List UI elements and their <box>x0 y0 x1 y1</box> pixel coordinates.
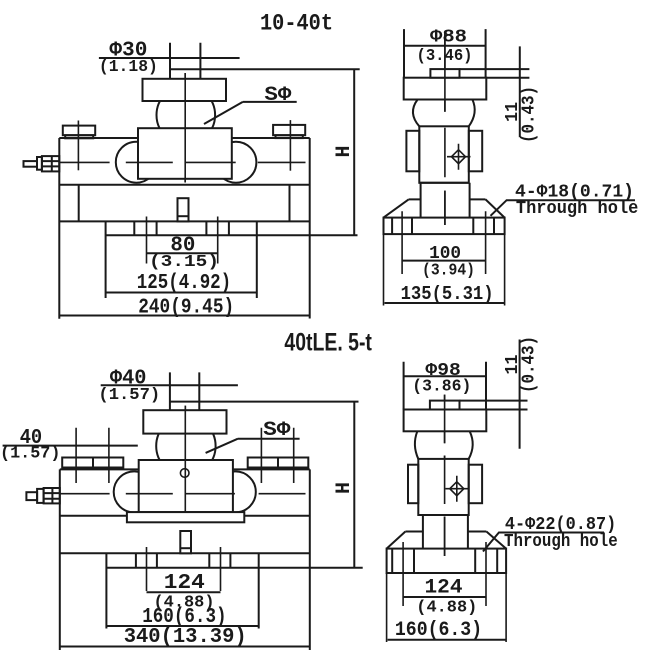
dim line Phi98 <box>404 375 486 377</box>
135 extensions <box>384 234 505 305</box>
side tab right <box>469 465 482 504</box>
H top reference line + collar line <box>170 401 359 403</box>
label Phi40 <box>98 367 160 405</box>
hole center extensions (124 dim) <box>147 547 221 591</box>
dim line 11 <box>519 46 521 137</box>
bolt left <box>63 121 95 171</box>
pin <box>178 198 189 221</box>
housing top edge <box>59 137 309 139</box>
pin <box>180 531 191 553</box>
housing bottom edge <box>60 515 310 517</box>
svg-text:H: H <box>333 482 356 494</box>
center line vertical <box>184 73 186 183</box>
lower neck <box>421 183 470 218</box>
11 dim reference lines <box>460 401 528 410</box>
base plate bottom + H bottom reference <box>106 234 358 236</box>
svg-text:124: 124 <box>425 576 463 599</box>
ball side view <box>413 100 475 127</box>
housing right edge + 340 extension <box>309 469 311 650</box>
svg-text:Through hole: Through hole <box>504 532 618 552</box>
svg-text:135(5.31): 135(5.31) <box>401 283 494 305</box>
diamond hole marker <box>447 144 471 170</box>
svg-text:Φ88: Φ88 <box>430 28 467 48</box>
svg-text:125(4.92): 125(4.92) <box>137 272 232 295</box>
svg-text:10-40t: 10-40t <box>260 11 333 37</box>
horizontal centerline <box>60 493 306 495</box>
svg-text:(3.94): (3.94) <box>422 262 475 281</box>
base plate hole edges <box>134 221 229 235</box>
top plate side <box>404 410 487 432</box>
label Phi98 <box>412 361 471 397</box>
dim line 11 bottom <box>519 340 521 449</box>
11 dim reference lines <box>460 69 530 78</box>
label Phi30 <box>99 40 158 77</box>
ball <box>156 416 215 475</box>
160 extensions <box>387 573 507 642</box>
center line <box>444 33 446 225</box>
trapezoid base top <box>409 198 486 200</box>
svg-text:(4.88): (4.88) <box>416 599 477 618</box>
svg-text:340(13.39): 340(13.39) <box>124 626 247 649</box>
dim 240 <box>59 315 309 317</box>
support beam inner verticals <box>79 185 290 222</box>
svg-text:124: 124 <box>164 572 205 595</box>
housing left edge + 240 extension <box>58 138 60 319</box>
saddle block <box>139 460 233 512</box>
trapezoid base top <box>405 531 486 533</box>
bolt strip right <box>248 428 309 483</box>
leader 4-Phi18 <box>491 200 636 216</box>
base band <box>387 549 507 573</box>
base plate sides + 160 extensions <box>106 553 258 628</box>
base plate sides + 125 extensions <box>106 221 257 298</box>
label 11 (0.43) rotated bottom <box>503 336 540 393</box>
small hole in block <box>180 469 189 478</box>
dim 135 <box>385 302 505 304</box>
support beam bottom <box>60 552 310 554</box>
strip under block <box>127 512 244 522</box>
svg-text:40tLE. 5-t: 40tLE. 5-t <box>284 329 372 357</box>
dim 160 <box>388 639 507 641</box>
label Phi88 <box>417 28 473 66</box>
dim 100 <box>402 260 486 262</box>
roller right <box>215 471 256 512</box>
base plate hole edges <box>136 553 231 568</box>
svg-text:(1.57): (1.57) <box>98 386 160 405</box>
saddle block <box>138 128 232 179</box>
dim 125 <box>106 292 257 294</box>
base band <box>384 218 505 235</box>
stem verticals (rocker pin top) <box>170 43 200 79</box>
ball side view <box>415 431 473 459</box>
base band hole edges <box>392 549 497 573</box>
svg-text:Through hole: Through hole <box>516 199 639 219</box>
center line redrawn <box>444 395 446 556</box>
svg-text:(3.86): (3.86) <box>412 378 471 397</box>
side tab right <box>469 131 482 172</box>
side tab left <box>408 465 418 504</box>
trapezoid slants <box>387 532 507 549</box>
hole center extensions (80 dim) <box>147 217 218 264</box>
svg-text:(3.15): (3.15) <box>149 253 219 272</box>
svg-text:H: H <box>333 145 356 157</box>
dim 80 <box>147 252 218 254</box>
anti-rotation tab <box>430 69 459 78</box>
support beam bottom <box>59 220 309 222</box>
dim 124 <box>403 596 486 598</box>
housing bottom edge <box>59 184 309 186</box>
body cylinder <box>419 126 469 183</box>
top plate <box>143 79 227 101</box>
leader 4-Phi22 <box>483 533 604 552</box>
cable connector <box>26 488 59 503</box>
cable connector <box>24 156 60 171</box>
center line vertical <box>184 406 186 512</box>
side tab left <box>406 131 419 172</box>
label 4-Phi18 through hole <box>515 183 638 219</box>
center line through plate/ball redrawn <box>184 73 186 183</box>
dim 340 <box>60 646 310 648</box>
dim 160 <box>106 625 258 627</box>
center line redrawn over body <box>444 33 446 225</box>
body bottom edge <box>418 514 468 516</box>
horizontal centerline <box>60 161 306 163</box>
roller right <box>215 142 256 183</box>
center line redrawn <box>184 406 186 512</box>
bolt strip left <box>62 428 123 483</box>
center line <box>444 395 446 556</box>
top plate side <box>404 78 487 100</box>
svg-text:240(9.45): 240(9.45) <box>138 297 234 320</box>
housing right edge + 240 extension <box>309 138 311 319</box>
label 11 (0.43) rotated <box>503 86 540 143</box>
stem verticals <box>170 372 199 410</box>
diamond hole marker <box>445 476 469 502</box>
top plate <box>143 410 226 433</box>
Phi88 extension lines <box>404 29 486 78</box>
dim line Phi88 <box>404 45 486 47</box>
dim H <box>353 69 355 235</box>
dim H bottom <box>353 402 355 568</box>
bolt right <box>273 120 305 171</box>
base band hole edges <box>392 218 494 235</box>
label 4-Phi22 through hole <box>504 515 618 552</box>
svg-text:160(6.3): 160(6.3) <box>395 619 482 642</box>
anti-rotation tab <box>430 401 460 410</box>
dim 124 <box>147 591 221 593</box>
hole center extensions (124 dim) <box>403 542 486 606</box>
hole center extensions (100 dim) <box>402 211 486 274</box>
Phi98 extension lines <box>404 362 486 410</box>
lower neck <box>423 515 468 549</box>
ball (rocker sphere) <box>157 86 216 145</box>
roller left <box>116 142 157 183</box>
H top reference line <box>170 68 359 70</box>
housing top edge <box>60 468 310 470</box>
svg-text:(1.57): (1.57) <box>0 445 60 464</box>
housing left edge + 340 extension <box>59 469 61 650</box>
svg-text:(0.43): (0.43) <box>520 336 540 393</box>
dim line Phi40 <box>101 384 238 386</box>
svg-text:(1.18): (1.18) <box>99 58 158 77</box>
svg-text:(0.43): (0.43) <box>520 86 540 143</box>
body cylinder <box>418 459 468 515</box>
trapezoid slants <box>384 199 505 217</box>
svg-text:SΦ: SΦ <box>264 84 291 107</box>
dim 40 left <box>3 445 138 447</box>
base plate bottom + H bottom reference <box>106 567 362 569</box>
roller left <box>114 471 155 512</box>
dim line Phi30 <box>99 57 240 59</box>
body bottom edge <box>419 182 469 184</box>
